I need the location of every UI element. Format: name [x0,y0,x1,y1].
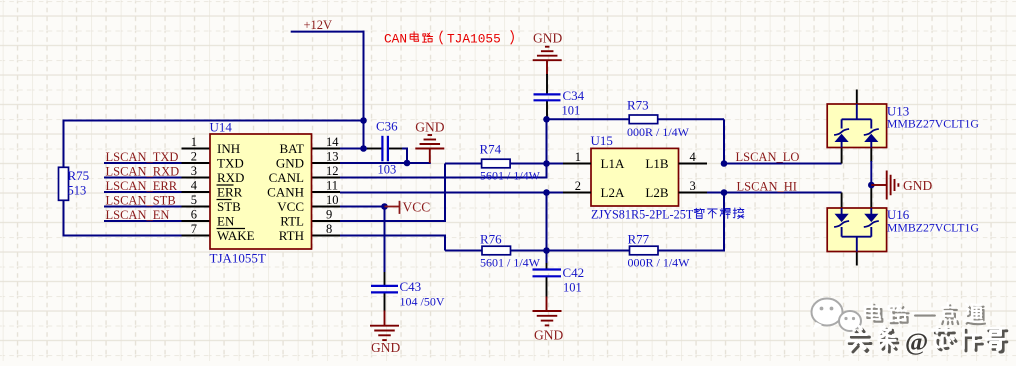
svg-text:1: 1 [575,150,581,164]
svg-text:GND: GND [415,120,444,135]
svg-text:GND: GND [534,328,563,343]
svg-text:+12V: +12V [304,18,333,32]
svg-text:5: 5 [191,193,197,207]
svg-text:CANL: CANL [269,170,304,185]
svg-text:000R / 1/4W: 000R / 1/4W [627,125,690,139]
svg-text:9: 9 [326,207,332,221]
svg-text:LSCAN_ERR: LSCAN_ERR [106,179,178,193]
svg-text:GND: GND [276,155,304,170]
svg-text:EN: EN [217,213,235,228]
svg-text:13: 13 [326,149,339,163]
svg-text:RTH: RTH [279,228,304,243]
svg-text:14: 14 [326,135,339,149]
svg-text:4: 4 [191,178,198,192]
svg-text:GND: GND [903,178,932,193]
svg-text:5601 / 1/4W: 5601 / 1/4W [480,256,541,270]
svg-text:L1A: L1A [601,156,625,171]
svg-text:L2A: L2A [601,185,625,200]
svg-text:C36: C36 [376,119,398,134]
svg-text:4: 4 [690,150,697,164]
svg-text:LSCAN_RXD: LSCAN_RXD [106,165,180,179]
svg-text:R74: R74 [480,142,502,157]
svg-text:MMBZ27VCLT1G: MMBZ27VCLT1G [887,221,979,235]
svg-text:103: 103 [378,163,397,177]
svg-text:GND: GND [371,340,400,355]
svg-text:INH: INH [217,141,240,156]
svg-text:C43: C43 [400,279,422,294]
svg-text:CANH: CANH [267,184,304,199]
svg-text:7: 7 [191,222,197,236]
svg-text:513: 513 [68,184,87,198]
svg-text:U14: U14 [210,120,233,135]
svg-text:12: 12 [326,164,339,178]
svg-text:STB: STB [217,199,241,214]
svg-text:2: 2 [191,149,197,163]
svg-text:GND: GND [533,31,562,46]
svg-text:@: @ [905,329,928,356]
svg-text:2: 2 [575,179,581,193]
svg-text:RXD: RXD [217,170,244,185]
svg-text:104 /50V: 104 /50V [400,295,445,309]
svg-text:LSCAN_TXD: LSCAN_TXD [106,150,179,164]
svg-text:LSCAN_EN: LSCAN_EN [106,208,170,222]
svg-text:CAN: CAN [384,32,407,47]
svg-text:000R / 1/4W: 000R / 1/4W [628,256,691,270]
svg-text:C34: C34 [563,88,585,103]
svg-text:101: 101 [563,281,582,295]
svg-text:6: 6 [191,207,197,221]
svg-text:VCC: VCC [277,199,304,214]
svg-text:RTL: RTL [280,213,304,228]
svg-text:11: 11 [326,178,338,192]
svg-text:ZJYS81R5-2PL-25T: ZJYS81R5-2PL-25T [591,207,694,221]
svg-text:L2B: L2B [645,185,668,200]
svg-text:10: 10 [326,193,339,207]
svg-text:5601 / 1/4W: 5601 / 1/4W [480,169,541,183]
svg-text:TXD: TXD [217,155,244,170]
svg-text:R73: R73 [627,98,649,113]
svg-text:TJA1055T: TJA1055T [210,251,266,266]
svg-text:R77: R77 [628,232,650,247]
svg-text:C42: C42 [563,265,585,280]
svg-text:3: 3 [191,164,197,178]
svg-text:R76: R76 [480,232,502,247]
svg-text:L1B: L1B [645,156,668,171]
svg-text:R75: R75 [68,168,90,183]
svg-text:MMBZ27VCLT1G: MMBZ27VCLT1G [887,117,979,131]
svg-text:LSCAN_STB: LSCAN_STB [106,194,176,208]
svg-text:U15: U15 [591,133,613,148]
svg-text:WAKE: WAKE [217,228,255,243]
svg-text:ERR: ERR [217,184,243,199]
svg-text:8: 8 [326,222,332,236]
svg-text:TJA1055: TJA1055 [447,32,501,47]
svg-text:LSCAN_LO: LSCAN_LO [736,150,800,164]
svg-text:LSCAN_HI: LSCAN_HI [737,180,797,194]
svg-text:3: 3 [690,179,696,193]
svg-text:101: 101 [562,104,581,118]
svg-text:VCC: VCC [403,200,431,215]
svg-text:BAT: BAT [279,141,304,156]
svg-text:1: 1 [191,135,197,149]
